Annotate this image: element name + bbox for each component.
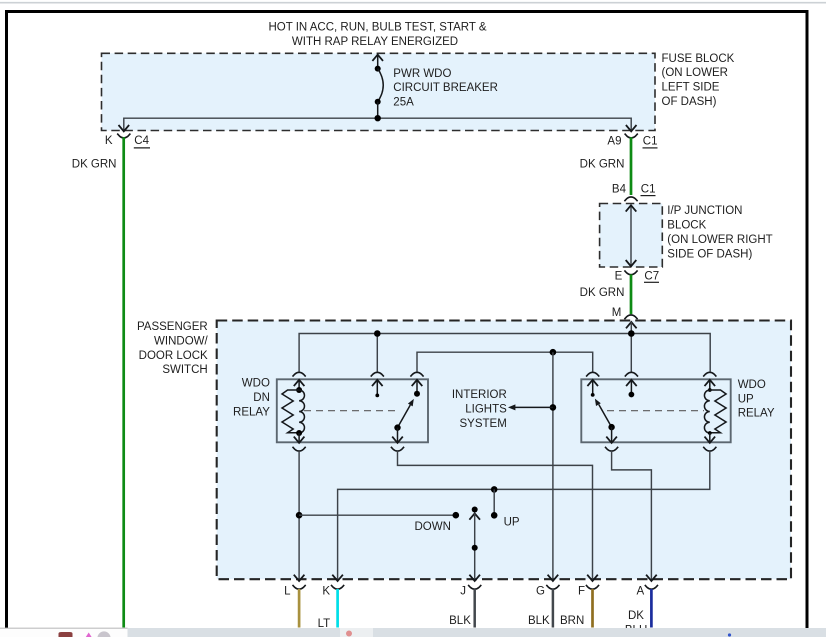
bottom overlay bar [0, 628, 826, 642]
svg-text:A9: A9 [607, 136, 621, 148]
svg-text:K: K [105, 135, 113, 147]
wire BRN at F [591, 589, 594, 628]
UP relay winding - node [708, 431, 712, 435]
fuse block (dashed box) [102, 53, 656, 130]
switch label PASSENGER WINDOW / DOOR LOCK SWITCH [137, 321, 209, 376]
svg-text:DK: DK [628, 610, 644, 622]
wire LT BLU at K [336, 589, 339, 628]
pin A9 connector C1 [607, 125, 657, 148]
pin K connector C4 [105, 125, 150, 148]
interior lights system arrow [508, 404, 553, 410]
WDO UP RELAY label [738, 379, 775, 420]
DN relay switch arm [394, 399, 414, 431]
power feed label HOT IN ACC [268, 22, 486, 48]
wire: interior lights / G feed [552, 352, 554, 581]
svg-text:BRN: BRN [560, 615, 584, 627]
svg-text:C4: C4 [134, 135, 149, 147]
svg-text:L: L [284, 585, 291, 597]
svg-text:WITH RAP RELAY ENERGIZED: WITH RAP RELAY ENERGIZED [292, 36, 458, 48]
svg-text:OF DASH): OF DASH) [662, 96, 717, 108]
svg-text:J: J [460, 585, 466, 597]
WDO DN RELAY label [233, 378, 270, 419]
terminal F [578, 575, 599, 598]
wire: DK GRN E to M [630, 274, 633, 314]
svg-text:I/P JUNCTION: I/P JUNCTION [667, 205, 742, 217]
wire: UP contact stub [493, 489, 495, 515]
svg-text:PWR WDO: PWR WDO [393, 68, 451, 80]
DN relay winding resistor [282, 390, 299, 433]
relay K1 WDO DN RELAY box [277, 379, 428, 442]
circuit breaker CB1 PWR WDO 25A [372, 55, 383, 119]
DN relay winding - node [296, 430, 302, 436]
svg-text:INTERIOR: INTERIOR [452, 389, 507, 401]
relay K2 WDO UP RELAY box [581, 379, 730, 442]
pin E connector C7 [615, 270, 659, 282]
I/P junction block label [667, 205, 772, 260]
svg-text:WDO: WDO [242, 378, 270, 390]
svg-text:WINDOW/: WINDOW/ [154, 335, 208, 347]
pin B4 connector C1 [612, 183, 656, 201]
junction: common bus to interior lights feed [550, 349, 557, 356]
svg-text:25A: 25A [393, 97, 414, 109]
svg-text:PASSENGER: PASSENGER [137, 321, 208, 333]
terminal K [322, 575, 344, 598]
svg-text:BLOCK: BLOCK [667, 220, 706, 232]
wire DK BLU at A [650, 589, 653, 628]
terminal J [460, 575, 481, 598]
UP relay winding resistor [710, 390, 726, 433]
terminal L [284, 575, 306, 598]
svg-text:FUSE BLOCK: FUSE BLOCK [662, 53, 735, 65]
junction: DOWN contact tap [296, 512, 303, 519]
svg-text:A: A [637, 585, 645, 597]
svg-text:(ON LOWER RIGHT: (ON LOWER RIGHT [667, 234, 772, 246]
svg-text:LIGHTS: LIGHTS [465, 404, 507, 416]
interior lights system label [452, 389, 507, 430]
wire: feed bus [299, 334, 710, 372]
DN relay pin: switch common [410, 372, 423, 396]
svg-text:DOOR LOCK: DOOR LOCK [139, 350, 208, 362]
relay UP internal dashed link [607, 410, 704, 412]
svg-text:E: E [615, 270, 623, 282]
DN relay pin: NC stub [371, 372, 384, 397]
node: UP contact [491, 512, 498, 519]
svg-text:DK GRN: DK GRN [580, 159, 625, 171]
junction: bus to DN relay winding [374, 330, 381, 337]
fuse block label [662, 53, 735, 108]
pin M [612, 307, 638, 319]
DN relay pin: winding - exit [293, 433, 306, 451]
svg-text:LEFT SIDE: LEFT SIDE [662, 82, 720, 94]
junction: breaker to bus [375, 115, 381, 121]
svg-text:WDO: WDO [738, 379, 766, 391]
wire: M entry to feed bus [626, 322, 637, 334]
svg-text:C1: C1 [641, 183, 656, 195]
svg-text:SIDE OF DASH): SIDE OF DASH) [667, 248, 752, 260]
svg-text:BLK: BLK [449, 615, 471, 627]
wire: UP winding exit to K terminal [338, 451, 710, 581]
passenger window/door lock switch S1 (dashed box) [217, 321, 791, 580]
svg-text:UP: UP [738, 393, 754, 405]
svg-text:G: G [536, 585, 545, 597]
UP relay pin: winding + [703, 372, 716, 392]
wire color label DK BLU [625, 610, 647, 637]
UP relay pin: winding - exit [703, 433, 716, 451]
svg-text:BLK: BLK [528, 615, 550, 627]
svg-text:HOT IN ACC, RUN, BULB TEST, ST: HOT IN ACC, RUN, BULB TEST, START & [268, 22, 486, 34]
DN relay pin: winding + [293, 372, 306, 393]
svg-text:CIRCUIT BREAKER: CIRCUIT BREAKER [393, 82, 498, 94]
svg-text:DOWN: DOWN [414, 521, 450, 533]
svg-text:SYSTEM: SYSTEM [460, 418, 507, 430]
UP relay pin: switch output exit [605, 427, 618, 451]
junction: UP contact tap [491, 486, 498, 493]
svg-text:DK GRN: DK GRN [580, 287, 625, 299]
terminal G [536, 575, 559, 598]
svg-text:F: F [578, 585, 585, 597]
wire: switch common bus [417, 352, 593, 371]
wire TAN at L [298, 589, 301, 628]
wire: DK GRN from K down page [122, 137, 125, 627]
svg-text:RELAY: RELAY [738, 408, 775, 420]
DN relay pin: switch output exit [391, 428, 404, 451]
junction: M to feed bus [628, 330, 635, 337]
wire: junction block internal [626, 205, 637, 266]
svg-text:SWITCH: SWITCH [162, 364, 207, 376]
wire: DN winding exit to L terminal [298, 451, 300, 581]
wiper: J terminal arm [469, 507, 480, 582]
svg-text:(ON LOWER: (ON LOWER [662, 67, 728, 79]
terminal A [637, 575, 658, 598]
DN relay winding coil [299, 390, 304, 433]
junction: interior lights tap [550, 404, 557, 411]
relay DN internal dashed link [304, 410, 396, 412]
svg-text:DN: DN [253, 392, 270, 404]
wire: DN switch output to F terminal [398, 451, 593, 581]
node: DOWN contact [453, 512, 460, 519]
svg-text:C1: C1 [643, 136, 658, 148]
svg-text:B4: B4 [612, 183, 627, 195]
svg-text:K: K [322, 585, 330, 597]
svg-text:DK GRN: DK GRN [72, 159, 117, 171]
wire: DK GRN A9 to B4 [630, 137, 633, 195]
svg-text:C7: C7 [644, 270, 659, 282]
svg-text:RELAY: RELAY [233, 407, 270, 419]
I/P junction block (dashed box) [600, 204, 663, 268]
wire: DOWN contact stub [299, 514, 456, 516]
UP relay winding coil [704, 390, 709, 433]
svg-text:UP: UP [504, 516, 520, 528]
UP relay pin: switch common [586, 372, 599, 397]
UP relay pin: feed [625, 372, 638, 397]
wire BLK at J [473, 589, 476, 628]
wire: fuse block internal bus [124, 118, 631, 131]
wire: UP switch output to A terminal [612, 451, 652, 581]
svg-text:M: M [612, 307, 622, 319]
value label: PWR WDO CIRCUIT BREAKER 25A [393, 68, 498, 109]
wire BLK at G [552, 589, 555, 628]
UP relay switch arm [595, 399, 615, 431]
